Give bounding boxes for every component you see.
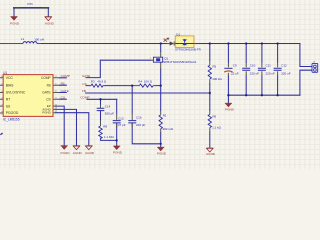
svg-text:L1: L1: [21, 37, 25, 41]
svg-text:R6: R6: [212, 114, 216, 118]
svg-text:STPSC8H100B-TR: STPSC8H100B-TR: [175, 47, 202, 51]
svg-text:CS: CS: [61, 96, 65, 100]
svg-text:47 pF: 47 pF: [118, 123, 126, 127]
svg-text:U1: U1: [3, 71, 7, 75]
svg-text:GATE: GATE: [61, 89, 69, 93]
svg-text:PGND: PGND: [157, 152, 167, 156]
svg-text:49.9 Ω: 49.9 Ω: [97, 80, 107, 84]
svg-text:SPB1TN010S5N4Z5AA1: SPB1TN010S5N4Z5AA1: [163, 60, 197, 64]
svg-text:AGND: AGND: [73, 151, 83, 155]
svg-text:FB: FB: [47, 83, 51, 87]
svg-text:FB: FB: [61, 82, 65, 86]
svg-text:220 nF: 220 nF: [281, 71, 291, 75]
svg-text:COMP: COMP: [41, 76, 51, 80]
svg-text:C11: C11: [266, 63, 272, 67]
svg-text:100 kΩ: 100 kΩ: [212, 77, 222, 81]
svg-text:AGND: AGND: [85, 151, 95, 155]
svg-text:R8: R8: [103, 124, 107, 128]
svg-text:220 pF: 220 pF: [136, 123, 146, 127]
svg-text:C16: C16: [136, 115, 142, 119]
svg-text:AGND: AGND: [45, 22, 55, 26]
svg-text:COMP: COMP: [61, 74, 70, 78]
svg-text:300 mΩ: 300 mΩ: [162, 127, 173, 131]
svg-text:PGND: PGND: [225, 108, 235, 112]
svg-text:R3: R3: [91, 80, 95, 84]
svg-text:AGND: AGND: [206, 152, 216, 156]
svg-text:220 nF: 220 nF: [250, 71, 260, 75]
svg-text:220 nF: 220 nF: [266, 71, 276, 75]
svg-text:VCC: VCC: [6, 76, 14, 80]
svg-text:C13: C13: [118, 116, 124, 120]
svg-text:GATE: GATE: [42, 91, 50, 95]
svg-text:100 Ω: 100 Ω: [144, 79, 153, 83]
svg-text:GATE: GATE: [82, 74, 90, 78]
svg-text:C9: C9: [233, 63, 237, 67]
svg-text:IC_LM5155: IC_LM5155: [3, 117, 20, 121]
svg-text:SS: SS: [6, 104, 11, 108]
svg-text:C10: C10: [250, 63, 256, 67]
svg-text:22 uF: 22 uF: [231, 72, 239, 76]
svg-text:100 uH: 100 uH: [34, 37, 44, 41]
svg-text:1.1 MΩ: 1.1 MΩ: [104, 135, 115, 139]
svg-text:BIAS: BIAS: [6, 83, 14, 87]
svg-text:PGND: PGND: [61, 151, 71, 155]
svg-text:1.1 kΩ: 1.1 kΩ: [212, 126, 222, 130]
svg-text:PGND: PGND: [113, 151, 123, 155]
svg-text:D1: D1: [176, 32, 180, 36]
svg-text:R4: R4: [138, 79, 142, 83]
svg-text:FB: FB: [82, 89, 86, 93]
svg-text:R1: R1: [163, 114, 167, 118]
svg-text:COMP: COMP: [80, 96, 89, 100]
svg-text:PGND: PGND: [42, 111, 50, 115]
svg-text:C12: C12: [281, 63, 287, 67]
svg-text:R5: R5: [212, 64, 216, 68]
svg-text:RT: RT: [6, 97, 10, 101]
svg-text:PGND: PGND: [10, 22, 20, 26]
svg-text:PGOOD: PGOOD: [6, 111, 19, 115]
svg-text:820 pF: 820 pF: [105, 111, 115, 115]
svg-text:CS: CS: [82, 82, 86, 86]
svg-text:C14: C14: [105, 104, 111, 108]
svg-text:UVLO/SYNC: UVLO/SYNC: [6, 91, 26, 95]
svg-text:CS: CS: [46, 97, 50, 101]
svg-text:NT1: NT1: [27, 2, 33, 6]
